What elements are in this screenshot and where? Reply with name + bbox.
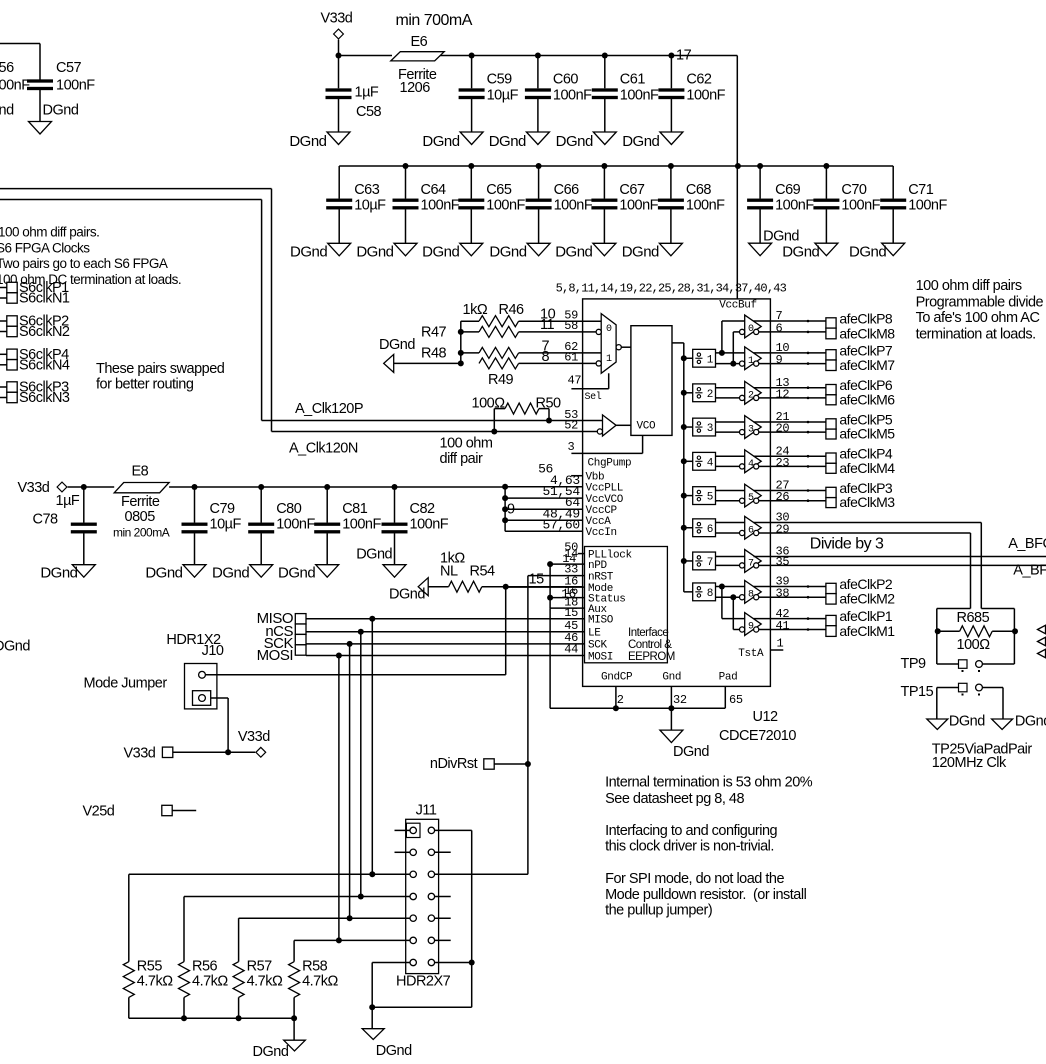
svg-text:26: 26 — [776, 490, 790, 504]
pin 18 Aux name — [588, 604, 608, 616]
power V33d top — [321, 11, 353, 56]
pin numbers 59 58 62 61 — [564, 309, 578, 365]
wire pin 6 to pad — [770, 331, 826, 334]
wire pin 9 to pad — [770, 362, 826, 365]
wire buffer 7 out M pin 35 — [759, 564, 771, 566]
note SPI mode — [605, 871, 806, 919]
wire buffer 6 out M pin 29 — [759, 532, 771, 534]
ground DGnd C78 — [40, 565, 95, 582]
wire buffer 4 out P pin 24 — [754, 455, 771, 457]
svg-text:R685: R685 — [957, 610, 990, 626]
svg-text:DGnd: DGnd — [489, 244, 526, 261]
svg-text:E6: E6 — [411, 34, 428, 50]
resistor R54 — [440, 551, 506, 593]
note 100 ohm diff pairs right — [916, 278, 1044, 343]
connector pad afeClkM5 — [826, 426, 895, 442]
divider box 4 — [684, 452, 716, 470]
svg-text:C62: C62 — [686, 72, 712, 88]
pin numbers 53 52 — [564, 408, 578, 433]
pin 16 Mode wire — [506, 574, 585, 588]
ground DGnd C63 — [290, 243, 351, 260]
ground DGnd J11 — [362, 1007, 412, 1059]
wire divider 1 outputs — [716, 353, 745, 364]
pin number 27 — [776, 479, 790, 493]
svg-text:U12: U12 — [753, 709, 779, 725]
pin number 13 — [776, 376, 790, 390]
svg-text:DGnd: DGnd — [489, 133, 526, 150]
svg-text:afeClkP8: afeClkP8 — [839, 311, 893, 327]
resistor R46 — [461, 302, 583, 327]
pin 15 MISO name — [588, 615, 614, 627]
wire divider 7 outputs — [716, 557, 745, 566]
svg-text:20: 20 — [776, 422, 790, 436]
pin 50 PLLlock name — [588, 549, 633, 561]
svg-text:DGnd: DGnd — [389, 587, 425, 603]
wire MISO junction — [369, 616, 375, 622]
capacitor C67 — [591, 163, 658, 243]
wire Mode vertical to J10 — [205, 587, 505, 675]
connector pin S6clkP4 — [0, 347, 69, 363]
svg-text:100nF: 100nF — [686, 88, 725, 104]
svg-text:DGnd: DGnd — [673, 744, 709, 760]
pin number 26 — [776, 490, 790, 504]
svg-text:GndCP: GndCP — [601, 672, 633, 684]
svg-text:2: 2 — [707, 389, 713, 401]
capacitor C79 — [182, 484, 242, 565]
svg-text:100nF: 100nF — [486, 198, 525, 214]
svg-text:100nF: 100nF — [619, 198, 658, 214]
svg-text:100nF: 100nF — [620, 88, 659, 104]
pin 14 nPD name — [588, 560, 608, 572]
svg-text:C61: C61 — [620, 72, 646, 88]
wire divider8 to buffer9 P — [719, 584, 745, 619]
svg-text:R46: R46 — [499, 302, 525, 318]
note interfacing — [605, 823, 777, 855]
wire pin 26 to pad — [770, 499, 826, 502]
pin 33 nRST name — [588, 571, 614, 583]
svg-text:C80: C80 — [276, 501, 302, 517]
svg-text:EEPROM: EEPROM — [628, 651, 675, 663]
connector pad afeClkP5 — [826, 412, 893, 430]
resistor R57 — [233, 959, 283, 1019]
svg-text:E8: E8 — [132, 464, 149, 480]
wire V33d rail right — [195, 486, 506, 488]
svg-text:100 ohm diff pairs.: 100 ohm diff pairs. — [0, 225, 99, 240]
wire buffer 1 out M pin 9 — [759, 363, 771, 365]
pin 46 SCK name — [588, 640, 608, 652]
svg-text:7: 7 — [707, 557, 713, 569]
svg-text:C66: C66 — [554, 182, 580, 198]
svg-text:1µF: 1µF — [355, 85, 379, 101]
wire buffer 9 out P pin 42 — [754, 618, 771, 620]
svg-text:C65: C65 — [486, 182, 512, 198]
svg-text:afeClkM7: afeClkM7 — [839, 357, 895, 373]
svg-text:VccBuf: VccBuf — [719, 300, 757, 312]
resistor R49 — [479, 358, 583, 388]
wire top rail V33d — [336, 53, 738, 59]
connector pin SCK — [264, 634, 306, 652]
capacitor C56 fragment labels — [0, 60, 30, 94]
svg-text:DGnd: DGnd — [1015, 714, 1046, 730]
svg-text:DGnd: DGnd — [40, 565, 77, 582]
svg-text:V33d: V33d — [18, 480, 50, 496]
wire buffer 0 out M pin 6 — [759, 331, 771, 333]
wire divider 4 outputs — [716, 456, 745, 466]
svg-text:DGnd: DGnd — [379, 337, 415, 353]
svg-text:VCO: VCO — [637, 421, 657, 433]
pin 18 Aux wire — [550, 595, 584, 609]
mux output — [616, 345, 631, 350]
wire buffer 5 out M pin 26 — [759, 500, 771, 502]
divider box 8 — [684, 583, 716, 601]
wire buffer 3 out P pin 21 — [754, 421, 771, 423]
svg-text:100 ohm: 100 ohm — [440, 436, 493, 452]
svg-text:5,8,11,14,19,22,25,28,31,34,37: 5,8,11,14,19,22,25,28,31,34,37,40,43 — [556, 282, 787, 296]
svg-text:DGnd: DGnd — [289, 133, 326, 150]
svg-text:DGnd: DGnd — [376, 1043, 412, 1059]
wire buffer 3 out M pin 20 — [759, 431, 771, 433]
ground DGnd C64 — [356, 243, 417, 260]
buffer 7 — [740, 550, 762, 573]
wire buffer 4 out M pin 23 — [759, 465, 771, 467]
svg-text:Pad: Pad — [719, 672, 738, 684]
svg-text:A_BFClk120P: A_BFClk120P — [1008, 536, 1046, 552]
label Divide by 3 — [810, 536, 884, 553]
svg-text:C57: C57 — [56, 60, 82, 76]
IC bottom pin names — [601, 672, 737, 684]
svg-text:1: 1 — [777, 637, 784, 651]
wire buffer 5 out P pin 27 — [754, 490, 771, 492]
svg-text:for better routing: for better routing — [96, 377, 194, 393]
ground DGnd C71 — [849, 243, 905, 260]
note 100 ohm diff pair — [440, 436, 493, 468]
wire top-left to C57 — [0, 44, 40, 80]
svg-text:38: 38 — [776, 587, 790, 601]
svg-text:nDivRst: nDivRst — [430, 756, 478, 772]
ground DGnd C58 — [289, 132, 350, 150]
svg-text:nRST: nRST — [588, 571, 614, 583]
capacitor C70 — [813, 163, 880, 243]
svg-text:DGnd: DGnd — [356, 244, 393, 261]
wire pin 24 to pad — [770, 455, 826, 458]
resistor R48 — [421, 346, 583, 362]
wire SCK junction — [347, 641, 353, 647]
svg-text:C78: C78 — [33, 512, 59, 528]
svg-text:HDR2X7: HDR2X7 — [396, 974, 451, 990]
wire buffer 8 out M pin 38 — [759, 596, 771, 598]
pin number 21 — [776, 410, 790, 424]
wire Vcc pin tree — [502, 484, 508, 532]
connector pin MOSI — [257, 645, 306, 664]
connector J10 — [166, 632, 224, 709]
capacitor C59 — [459, 53, 519, 133]
svg-text:3: 3 — [748, 425, 754, 436]
svg-text:9: 9 — [507, 502, 515, 518]
svg-text:C67: C67 — [619, 182, 645, 198]
wire Mode row — [503, 584, 583, 590]
svg-text:C60: C60 — [553, 72, 579, 88]
capacitor C57 — [27, 60, 95, 122]
connector pad afeClkM8 — [826, 325, 895, 341]
svg-text:TstA: TstA — [738, 648, 764, 660]
wire pin 42 to pad — [770, 617, 826, 620]
pin number 29 — [776, 523, 790, 537]
wire pin35 A_BF — [770, 563, 1046, 579]
svg-text:4.7kΩ: 4.7kΩ — [192, 974, 228, 990]
svg-text:diff pair: diff pair — [440, 451, 483, 467]
wire MISO vertical — [371, 619, 373, 875]
svg-text:These pairs swapped: These pairs swapped — [96, 361, 225, 377]
divider box 3 — [684, 418, 716, 436]
svg-text:See datasheet pg 8, 48: See datasheet pg 8, 48 — [605, 791, 744, 807]
ground DGnd arrow R48 — [379, 337, 461, 372]
IC Pad label — [0, 0, 1, 1]
connector pin S6clkN2 — [0, 324, 70, 340]
svg-text:R58: R58 — [302, 959, 328, 975]
svg-text:afeClkM4: afeClkM4 — [839, 460, 895, 476]
svg-text:VccPLL: VccPLL — [586, 483, 624, 495]
wire TP15 right leg — [1002, 688, 1004, 720]
wire nPD Status Aux vertical — [549, 564, 551, 708]
svg-text:7: 7 — [748, 558, 754, 569]
net labels 10 11 7 8 — [540, 307, 556, 366]
svg-text:min 200mA: min 200mA — [113, 526, 170, 540]
testpoint TP9 — [901, 656, 1015, 672]
svg-text:0805: 0805 — [125, 509, 156, 525]
wire divider1 to buffer0 M — [730, 332, 740, 367]
capacitor C63 — [326, 166, 386, 243]
capacitor C62 — [658, 53, 725, 133]
svg-text:nd: nd — [0, 103, 14, 119]
ground DGnd C68 — [622, 243, 683, 260]
connector pad afeClkM1 — [826, 623, 895, 639]
wire buffer 8 out P pin 39 — [754, 586, 771, 588]
capacitor C58 — [326, 56, 382, 133]
pin 14 nPD wire — [547, 547, 584, 567]
capacitor C65 — [458, 163, 525, 243]
pin 57,60 VccIn — [505, 517, 617, 539]
svg-text:8: 8 — [707, 588, 713, 600]
svg-text:For SPI mode, do not load the: For SPI mode, do not load the — [605, 871, 784, 887]
svg-text:C82: C82 — [410, 501, 436, 517]
note TP25ViaPadPair — [932, 742, 1033, 772]
svg-text:Programmable divide: Programmable divide — [916, 294, 1044, 310]
svg-text:afeClkP1: afeClkP1 — [839, 608, 893, 624]
wire buffer 9 out M pin 41 — [759, 629, 771, 631]
connector J11 pins — [410, 827, 435, 966]
svg-text:S6clkN3: S6clkN3 — [19, 390, 70, 406]
svg-text:100nF: 100nF — [908, 198, 947, 214]
svg-text:Divide by 3: Divide by 3 — [810, 536, 884, 553]
svg-text:0: 0 — [606, 324, 612, 335]
buffer 4 — [740, 450, 762, 473]
svg-text:afeClkP2: afeClkP2 — [839, 576, 893, 592]
wire SCK vertical — [349, 644, 351, 918]
svg-text:1: 1 — [707, 354, 714, 366]
svg-text:44: 44 — [564, 643, 578, 657]
svg-text:TP15: TP15 — [901, 684, 934, 700]
svg-text:MOSI: MOSI — [257, 647, 293, 664]
svg-text:100nF: 100nF — [553, 88, 592, 104]
wire pin 10 to pad — [770, 352, 826, 355]
pin 4,63 VccPLL — [505, 473, 623, 495]
connector pad afeClkM6 — [826, 391, 895, 407]
pin 15 MISO wire — [306, 606, 585, 620]
wire J11 row2 left stub — [395, 851, 411, 853]
svg-text:6: 6 — [748, 525, 754, 536]
svg-text:10µF: 10µF — [354, 198, 386, 214]
connector pad afeClkM3 — [826, 494, 895, 510]
svg-text:C70: C70 — [841, 182, 867, 198]
svg-text:VccIn: VccIn — [586, 527, 617, 539]
svg-text:100 ohm diff pairs: 100 ohm diff pairs — [916, 278, 1022, 294]
pin 45 LE wire — [306, 619, 585, 633]
net label 15 — [529, 572, 545, 588]
wire A_Clk120N — [0, 189, 583, 457]
pin number 23 — [776, 456, 790, 470]
wire divider 6 outputs — [716, 523, 745, 534]
svg-text:DGnd: DGnd — [356, 547, 392, 563]
svg-text:100nF: 100nF — [841, 198, 880, 214]
connector pin MISO — [257, 610, 306, 627]
ground DGnd R58 — [253, 1018, 306, 1060]
pin 33 nRST wire — [528, 563, 585, 577]
svg-text:4.7kΩ: 4.7kΩ — [247, 974, 283, 990]
power V33d E8 rail — [18, 480, 195, 496]
svg-text:2: 2 — [617, 693, 624, 707]
wire MOSI vertical — [338, 656, 340, 941]
resistor R685 — [935, 610, 1018, 653]
pin Status wire — [547, 584, 584, 602]
svg-text:C59: C59 — [487, 72, 513, 88]
wire buffer 0 out P pin 7 — [754, 320, 771, 322]
wire J11 row5 right stub — [435, 917, 451, 919]
svg-text:C68: C68 — [686, 182, 712, 198]
pin 48,49 VccA — [505, 506, 611, 528]
note Mode Jumper — [84, 676, 168, 692]
resistor R55 — [123, 959, 173, 1019]
wire mux inputs — [583, 321, 602, 363]
svg-text:DGnd: DGnd — [43, 103, 79, 119]
IC U12 VccBuf label — [719, 300, 757, 312]
wire nCS vertical — [360, 632, 362, 897]
wire divider 5 outputs — [716, 491, 745, 501]
svg-text:56: 56 — [0, 60, 14, 76]
IC U12 top pins label — [556, 282, 787, 296]
wire divider 8 outputs — [716, 587, 745, 598]
wire buffer 2 out P pin 13 — [754, 387, 771, 389]
net stub V25d — [83, 804, 197, 820]
svg-text:afeClkP7: afeClkP7 — [839, 342, 893, 358]
wire R46-R49 left bus — [458, 321, 464, 366]
svg-text:afeClkM1: afeClkM1 — [839, 623, 895, 639]
pin 44 MOSI wire — [306, 643, 585, 657]
svg-text:R54: R54 — [470, 564, 496, 580]
capacitor C69 — [747, 163, 814, 243]
wire VCO out to divider bus — [672, 342, 684, 344]
resistor R50 — [472, 396, 562, 415]
svg-text:S6clkN4: S6clkN4 — [19, 357, 70, 373]
svg-text:DGnd: DGnd — [422, 244, 459, 261]
pin number 39 — [776, 575, 790, 589]
pin 46 SCK wire — [306, 631, 585, 645]
buffer 0 — [740, 315, 762, 338]
capacitor C82 — [382, 484, 449, 565]
connector pin S6clkN1 — [0, 291, 70, 307]
connector pad afeClkM2 — [826, 591, 895, 607]
resistor R47 — [421, 325, 583, 341]
wire TP15 left leg — [936, 688, 938, 720]
ground DGnd U12 — [660, 708, 709, 760]
net label 9 — [507, 502, 515, 518]
wire IC ground rail — [550, 705, 725, 711]
pin number 20 — [776, 422, 790, 436]
pin 32 Gnd — [671, 686, 686, 708]
svg-text:15: 15 — [529, 572, 545, 588]
svg-text:57,60: 57,60 — [543, 517, 580, 532]
svg-text:9: 9 — [776, 353, 783, 367]
ground DGnd C79 — [145, 565, 206, 582]
svg-text:MISO: MISO — [588, 615, 614, 627]
svg-text:Ferrite: Ferrite — [121, 494, 160, 510]
IC U12 outline — [583, 299, 771, 687]
svg-text:DGnd: DGnd — [782, 244, 819, 261]
label min 700mA — [396, 12, 473, 29]
svg-text:58: 58 — [564, 319, 578, 333]
connector pad afeClkP6 — [826, 377, 893, 395]
svg-text:23: 23 — [776, 456, 790, 470]
ground DGnd C56 fragment — [0, 103, 14, 119]
svg-text:DGnd: DGnd — [555, 244, 592, 261]
svg-text:Internal termination is 53 ohm: Internal termination is 53 ohm 20% — [605, 775, 813, 791]
note internal termination — [605, 775, 813, 808]
svg-text:V33d: V33d — [238, 729, 270, 745]
pin number 10 — [776, 341, 790, 355]
svg-text:9: 9 — [748, 622, 754, 633]
wire buffer 7 out P pin 36 — [754, 556, 771, 558]
capacitor C64 — [393, 163, 460, 243]
pin 2 GndCP — [616, 686, 624, 708]
power V33d J10 — [238, 729, 270, 757]
wire J10 pin2 to V33d — [211, 698, 231, 755]
buffer 6 — [740, 516, 762, 539]
svg-text:17: 17 — [676, 48, 692, 64]
pin 47 Sel — [568, 373, 609, 403]
svg-text:afeClkM2: afeClkM2 — [839, 591, 895, 607]
pin number 24 — [776, 444, 790, 458]
svg-text:10µF: 10µF — [487, 88, 519, 104]
wire R50 right leg — [546, 409, 552, 424]
svg-text:Control &: Control & — [628, 639, 672, 651]
pin number 7 — [776, 309, 783, 323]
wire J11 row4 right stub — [435, 896, 451, 898]
svg-text:61: 61 — [564, 351, 578, 365]
ground DGnd C81 — [278, 565, 339, 582]
connector pad afeClkP2 — [826, 576, 893, 594]
svg-text:4.7kΩ: 4.7kΩ — [302, 974, 338, 990]
pin number 12 — [776, 387, 790, 401]
svg-text:R47: R47 — [421, 325, 447, 341]
svg-text:Mode pulldown resistor. (or i: Mode pulldown resistor. (or install — [605, 887, 806, 903]
svg-text:100nF: 100nF — [410, 517, 449, 533]
svg-text:5: 5 — [748, 493, 754, 504]
svg-text:DGnd: DGnd — [212, 565, 249, 582]
pin 51,54 VccVCO — [505, 484, 624, 506]
svg-text:R55: R55 — [137, 959, 163, 975]
wire pin 21 to pad — [770, 421, 826, 424]
pin 64 VccCP — [505, 495, 617, 517]
wire buffer 2 out M pin 12 — [759, 397, 771, 399]
